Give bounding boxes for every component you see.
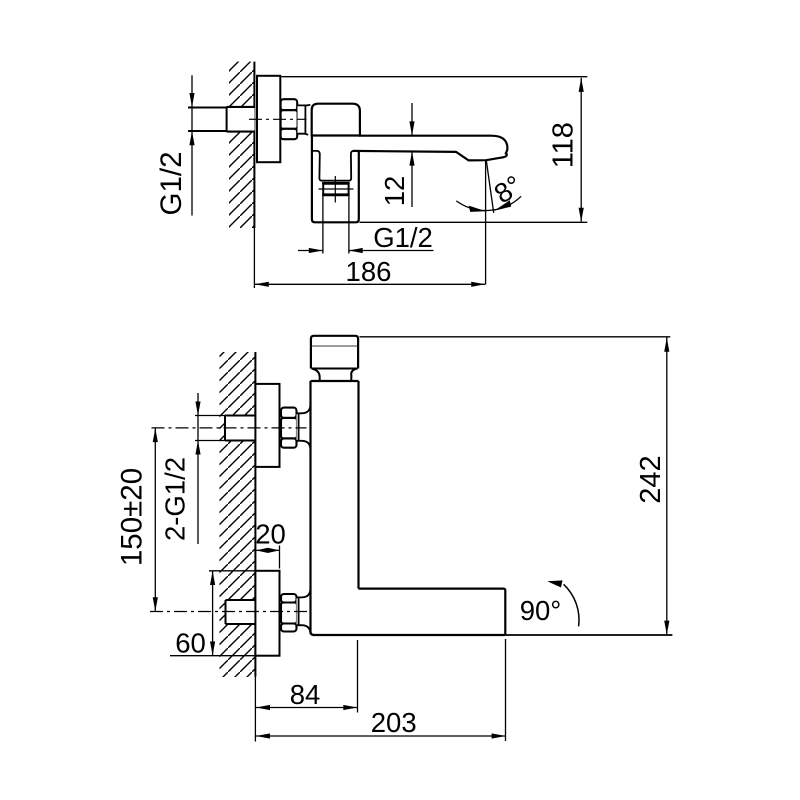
svg-text:2-G1/2: 2-G1/2 xyxy=(160,457,191,541)
svg-text:90°: 90° xyxy=(520,595,562,626)
svg-text:20: 20 xyxy=(255,519,286,550)
svg-text:12: 12 xyxy=(379,176,410,207)
svg-text:60: 60 xyxy=(175,628,206,659)
svg-text:150±20: 150±20 xyxy=(116,468,149,566)
svg-text:118: 118 xyxy=(547,122,579,168)
svg-text:203: 203 xyxy=(371,707,417,738)
svg-text:242: 242 xyxy=(635,455,667,503)
svg-text:G1/2: G1/2 xyxy=(155,152,188,216)
svg-text:186: 186 xyxy=(346,256,392,287)
svg-text:G1/2: G1/2 xyxy=(373,222,433,253)
svg-text:84: 84 xyxy=(290,679,321,710)
